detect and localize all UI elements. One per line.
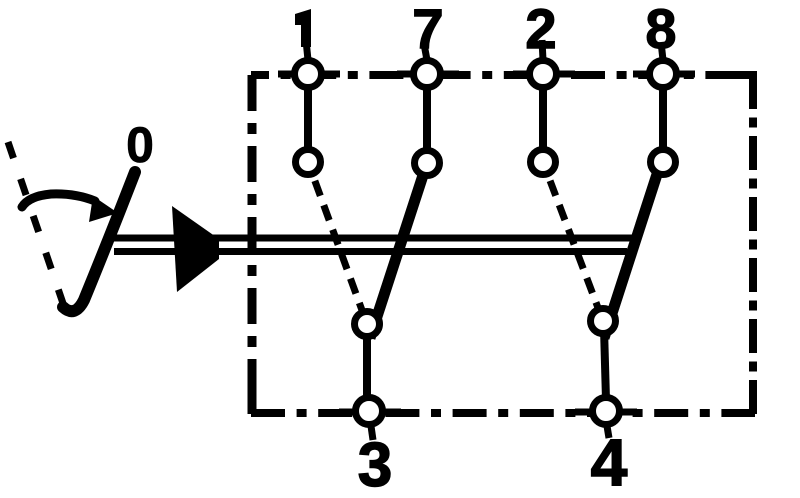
svg-text:0: 0 <box>126 117 154 173</box>
svg-text:4: 4 <box>591 425 628 498</box>
svg-text:7: 7 <box>412 0 443 60</box>
svg-text:8: 8 <box>645 0 676 60</box>
svg-text:2: 2 <box>525 0 556 60</box>
svg-text:3: 3 <box>358 431 392 498</box>
